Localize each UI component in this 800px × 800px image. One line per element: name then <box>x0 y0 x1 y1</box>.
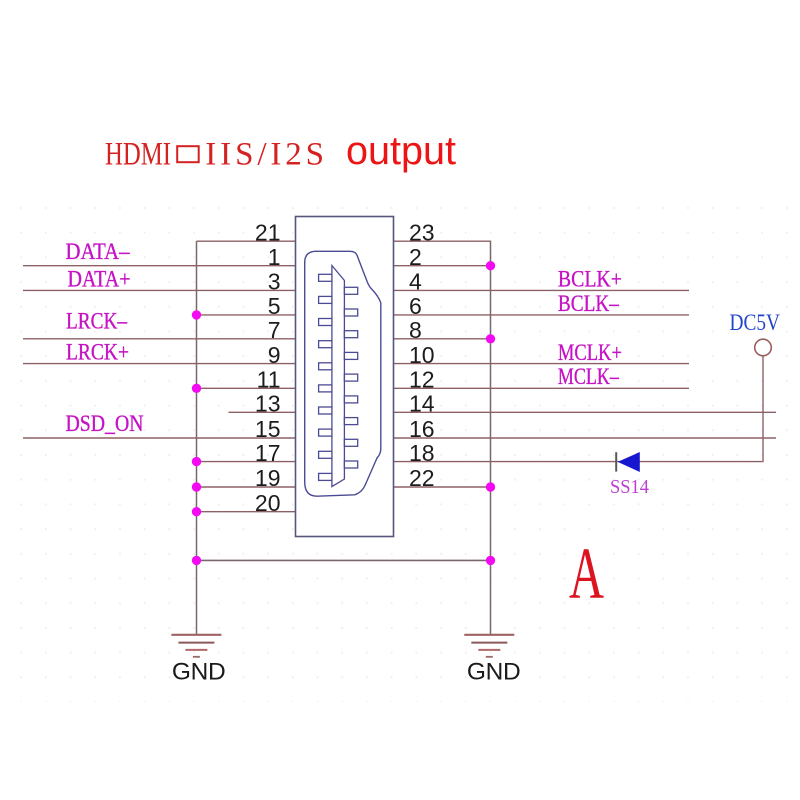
title text HDMI IIS/I2S <box>105 137 328 173</box>
junction node right bus / ground rail <box>486 556 495 565</box>
connector contact pin right 3 <box>344 331 357 338</box>
connector contact pin right 4 <box>344 352 357 359</box>
svg-text:MCLK+: MCLK+ <box>558 340 622 365</box>
junction node right bus row 4 <box>486 334 495 343</box>
wire to pin 1 (left) <box>23 265 296 267</box>
svg-text:A: A <box>569 533 604 614</box>
connector centre tongue bar <box>332 266 345 487</box>
left bus vertical wire <box>196 241 198 634</box>
connector contact pin right 5 <box>344 374 357 381</box>
wire to pin 19 (left) <box>197 486 296 488</box>
connector contact pin right 8 <box>344 439 357 446</box>
connector contact pin left 6 <box>319 385 332 392</box>
wire to pin 8 (right) <box>394 338 491 340</box>
wire to pin 5 (left) <box>197 314 296 316</box>
right bus vertical wire <box>490 241 492 635</box>
svg-text:14: 14 <box>409 391 435 417</box>
svg-text:4: 4 <box>409 269 422 295</box>
connector contact pin left 8 <box>319 429 332 436</box>
svg-text:23: 23 <box>409 219 435 245</box>
connector contact pin left 4 <box>319 341 332 348</box>
svg-text:LRCK+: LRCK+ <box>66 340 129 365</box>
wire to pin 14 (right) <box>394 411 777 413</box>
connector contact pin left 3 <box>319 319 332 326</box>
svg-text:15: 15 <box>255 416 281 442</box>
wire to pin 9 (left) <box>23 363 296 365</box>
svg-text:output: output <box>346 129 456 173</box>
wire to pin 15 (left) <box>23 437 296 439</box>
svg-text:SS14: SS14 <box>610 476 649 498</box>
svg-text:9: 9 <box>268 342 281 368</box>
connector contact pin left 1 <box>319 274 332 281</box>
svg-text:18: 18 <box>409 440 435 466</box>
connector contact pin right 2 <box>344 309 357 316</box>
power terminal DC5V circle <box>755 339 772 356</box>
svg-text:6: 6 <box>409 293 422 319</box>
svg-text:5: 5 <box>268 293 281 319</box>
connector contact pin left 10 <box>319 473 332 480</box>
svg-text:16: 16 <box>409 416 435 442</box>
svg-text:DC5V: DC5V <box>730 310 781 335</box>
wire to pin 21 (left) <box>197 240 296 242</box>
junction node left bus row 10 <box>192 482 201 491</box>
ground symbol left <box>171 635 221 657</box>
wire to pin 23 (right) <box>394 240 491 242</box>
wire to pin 20 (left) <box>197 511 296 513</box>
wire to pin 13 (left) <box>229 411 296 413</box>
svg-text:IIS/I2S: IIS/I2S <box>205 137 328 173</box>
svg-text:8: 8 <box>409 317 422 343</box>
junction node right bus row 10 <box>486 482 495 491</box>
wire to pin 4 (right) <box>394 289 690 291</box>
svg-text:HDMI: HDMI <box>105 137 171 173</box>
svg-text:22: 22 <box>409 465 435 491</box>
svg-text:GND: GND <box>172 659 226 686</box>
svg-text:DATA–: DATA– <box>66 239 130 264</box>
wire to pin 12 (right) <box>394 387 690 389</box>
connector contact pin right 9 <box>344 461 357 468</box>
diode D1 SS14 triangle <box>618 452 640 472</box>
junction node left bus row 9 <box>192 457 201 466</box>
bottom ground rail wire <box>197 559 491 561</box>
background grid dots <box>0 186 800 702</box>
connector contact pin right 6 <box>344 396 357 403</box>
svg-text:LRCK–: LRCK– <box>66 308 127 333</box>
connector contact pin left 5 <box>319 363 332 370</box>
svg-text:BCLK–: BCLK– <box>558 291 619 316</box>
svg-text:GND: GND <box>467 659 521 686</box>
connector contact pin right 1 <box>344 287 357 294</box>
svg-text:12: 12 <box>409 367 435 393</box>
svg-text:3: 3 <box>268 269 281 295</box>
svg-text:DSD_ON: DSD_ON <box>66 411 144 436</box>
svg-text:DATA+: DATA+ <box>68 266 131 291</box>
wire DC5V vertical <box>761 356 764 462</box>
svg-text:17: 17 <box>255 440 281 466</box>
svg-text:19: 19 <box>255 465 281 491</box>
wire to pin 7 (left) <box>23 338 296 340</box>
ground symbol right <box>464 635 514 657</box>
connector HDMI inner shell contour <box>305 251 381 496</box>
svg-text:MCLK–: MCLK– <box>558 364 619 389</box>
junction node left bus row 11 <box>192 507 201 516</box>
connector J1 HDMI outer body <box>296 217 394 537</box>
junction node left bus row 6 <box>192 384 201 393</box>
connector contact pin left 7 <box>319 407 332 414</box>
wire to pin 11 (left) <box>197 387 296 389</box>
svg-text:10: 10 <box>409 342 435 368</box>
connector contact pin right 7 <box>344 418 357 425</box>
wire to pin 10 (right) <box>394 363 690 365</box>
junction node left bus / ground rail <box>192 556 201 565</box>
svg-text:1: 1 <box>268 244 281 270</box>
wire to pin 17 (left) <box>197 461 296 463</box>
connector contact pin left 9 <box>319 451 332 458</box>
wire to pin 3 (left) <box>23 289 296 291</box>
wire to pin 16 (right) <box>394 437 777 439</box>
svg-text:13: 13 <box>255 391 281 417</box>
svg-text:2: 2 <box>409 244 422 270</box>
connector contact pin left 2 <box>319 296 332 303</box>
junction node right bus row 1 <box>486 261 495 270</box>
junction node left bus row 3 <box>192 310 201 319</box>
wire to pin 22 (right) <box>394 486 491 488</box>
wire to pin 2 (right) <box>394 265 491 267</box>
svg-text:11: 11 <box>257 367 281 393</box>
wire to pin 6 (right) <box>394 314 690 316</box>
svg-text:21: 21 <box>255 219 281 245</box>
wire to pin 18 (right) <box>394 461 763 463</box>
svg-text:20: 20 <box>255 490 281 516</box>
svg-text:BCLK+: BCLK+ <box>558 266 622 291</box>
svg-text:7: 7 <box>268 317 281 343</box>
diode D1 SS14 cathode bar <box>615 452 617 471</box>
